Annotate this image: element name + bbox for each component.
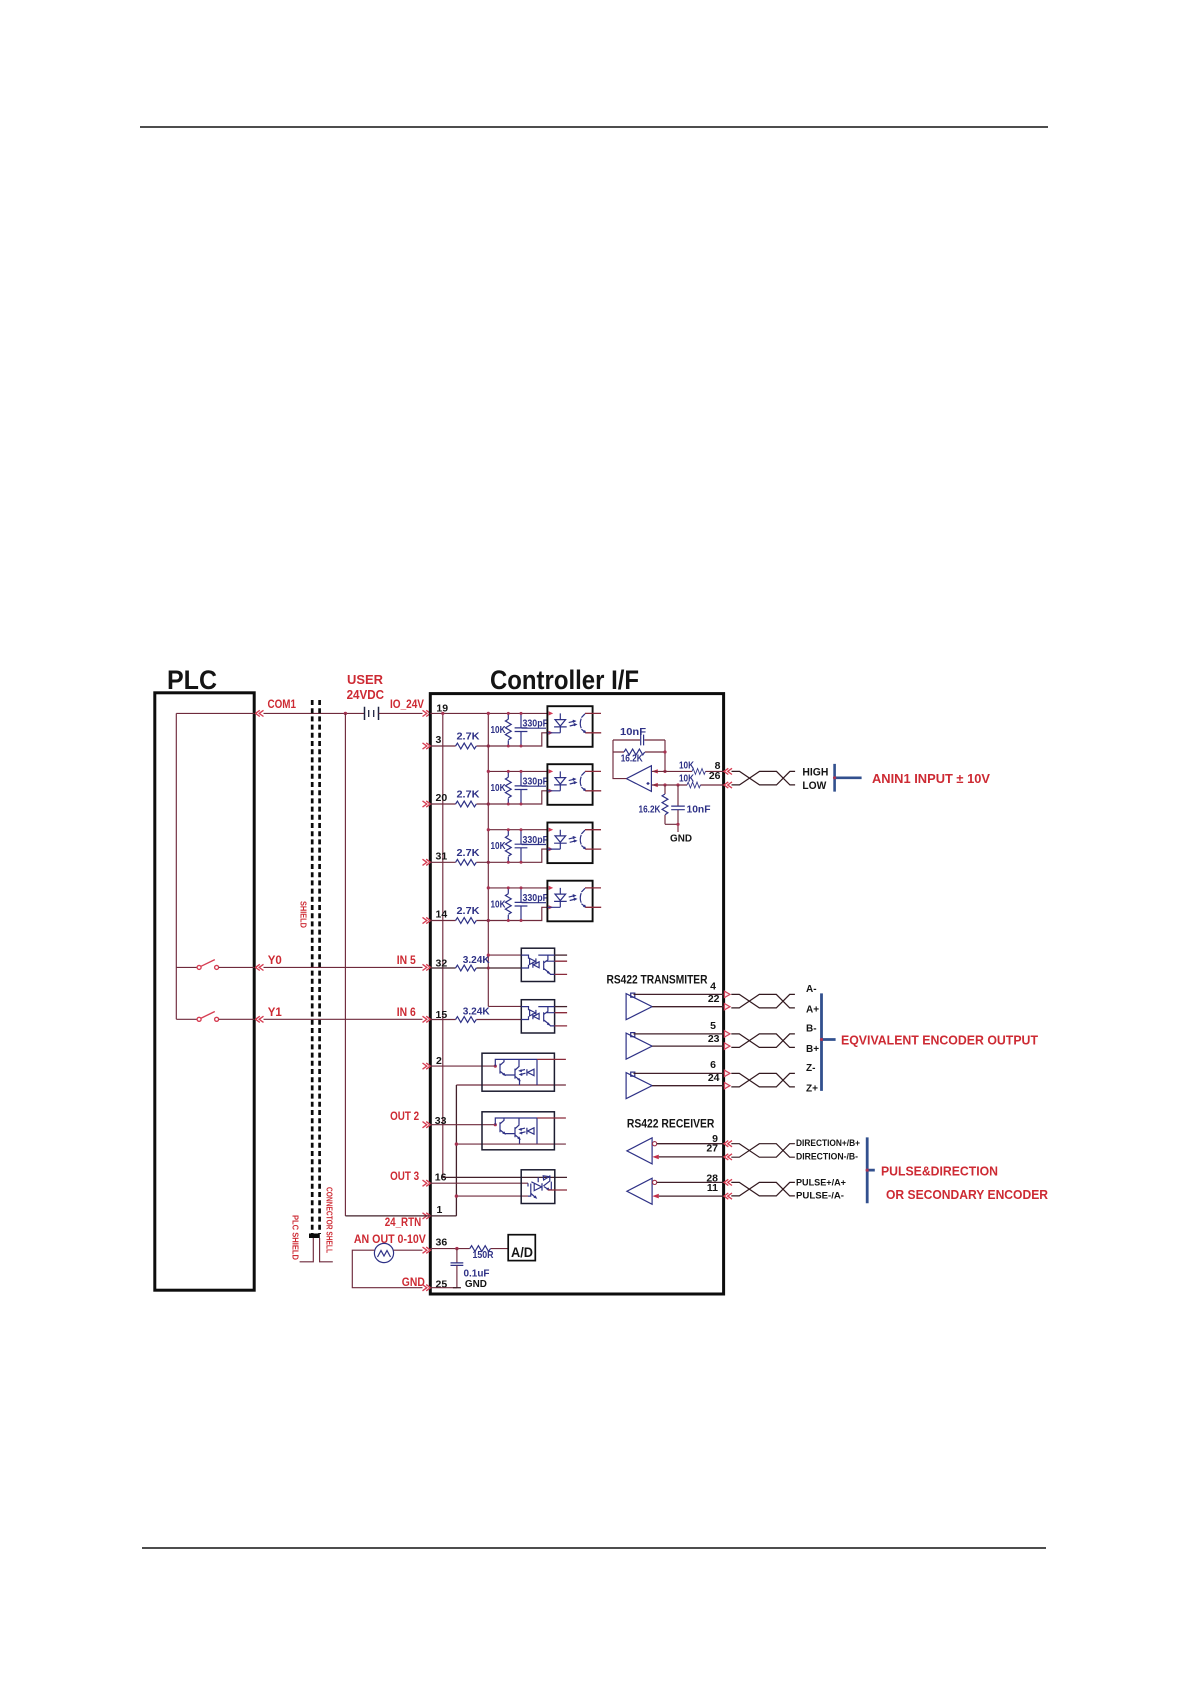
CONNECTOR SHELL label (325, 1187, 335, 1253)
pin 33 label (435, 1115, 447, 1127)
switch Y0 (176, 960, 254, 970)
Y0 arrow at PLC edge (256, 964, 264, 970)
shield dashed line left (311, 700, 314, 1234)
pin 8 arrow (724, 768, 732, 774)
resistor 10K pin 20 (491, 770, 512, 806)
pin 26 arrow (724, 782, 732, 788)
svg-text:PULSE+/A+: PULSE+/A+ (796, 1177, 846, 1187)
wire pin 14 (430, 907, 547, 920)
wire anode rail pin 14 (488, 887, 547, 889)
svg-text:10K: 10K (679, 772, 694, 784)
ANIN1 INPUT label (872, 772, 991, 786)
pin 14 label (436, 909, 448, 921)
bus IO_24V vertical (442, 713, 444, 1177)
svg-text:20: 20 (436, 792, 448, 804)
wire COM1 internal horizontal (176, 712, 254, 714)
analog source circle (374, 1243, 393, 1262)
svg-text:GND: GND (670, 833, 692, 845)
svg-text:36: 36 (436, 1237, 448, 1249)
node bus crossing pin 14 (487, 919, 490, 922)
pin 11 label (707, 1182, 718, 1194)
svg-text:25: 25 (436, 1279, 448, 1291)
optocoupler pin 33 (482, 1112, 566, 1150)
optocoupler pin 31 (547, 823, 601, 864)
PLC title (167, 665, 217, 695)
wire pin 23 (652, 1045, 724, 1047)
wire GND stub (665, 823, 680, 832)
wire pin 16 (430, 1182, 528, 1184)
wire pin 32 (430, 967, 521, 969)
pin 11 arrow (724, 1193, 732, 1199)
svg-text:GND: GND (465, 1278, 487, 1290)
pin 1 arrow (423, 1213, 431, 1219)
svg-text:2: 2 (436, 1055, 442, 1067)
IN6 arrow into controller (423, 1016, 431, 1022)
pin 36 arrow (423, 1247, 431, 1253)
svg-text:B-: B- (806, 1024, 817, 1035)
Y1 label (268, 1007, 283, 1019)
svg-text:3.24K: 3.24K (463, 1006, 490, 1018)
RS422 transmitter 6/24 (626, 1072, 652, 1099)
svg-text:B+: B+ (806, 1044, 819, 1055)
wire anode rail pin 20 (488, 770, 547, 772)
wire Y0 to IN5 (264, 966, 423, 968)
svg-text:16.2K: 16.2K (621, 754, 644, 765)
pin 22 output arrow (724, 1004, 730, 1010)
svg-text:31: 31 (436, 851, 448, 863)
resistor 16.2K to GND (639, 785, 668, 824)
svg-text:A/D: A/D (511, 1245, 533, 1260)
svg-text:RS422 TRANSMITER: RS422 TRANSMITER (607, 975, 709, 987)
page bottom rule (142, 1547, 1046, 1549)
COM1 label (268, 699, 297, 711)
wire pin 9 (657, 1143, 724, 1145)
node rail junction (487, 886, 490, 889)
pin 14 entry arrow (423, 917, 431, 923)
svg-text:24_RTN: 24_RTN (385, 1217, 422, 1229)
svg-text:3.24K: 3.24K (463, 954, 490, 966)
OUT 3 label (390, 1171, 419, 1183)
capacitor 330pF pin 20 (515, 770, 549, 806)
svg-text:PULSE&DIRECTION: PULSE&DIRECTION (881, 1164, 998, 1179)
svg-text:PLC SHIELD: PLC SHIELD (291, 1215, 301, 1260)
Z+ label (806, 1084, 818, 1095)
node bus crossing pin 3 (487, 744, 490, 747)
pin 31 entry arrow (423, 859, 431, 865)
OR SECONDARY ENCODER label (886, 1187, 1049, 1202)
svg-text:10K: 10K (491, 898, 506, 910)
receiver input circle (653, 1142, 657, 1146)
pin 6 output arrow (724, 1070, 730, 1076)
twisted pair receiver 9/27 (731, 1144, 795, 1158)
PULSE&DIRECTION label (881, 1164, 998, 1179)
wire pin 24 (652, 1085, 724, 1087)
pin 23 output arrow (724, 1043, 730, 1049)
A+ label (806, 1005, 819, 1016)
svg-text:OUT 2: OUT 2 (390, 1111, 419, 1123)
capacitor 10nF feedback (613, 726, 665, 745)
receiver input circle (653, 1180, 657, 1184)
node junction 24V return (344, 712, 347, 715)
pin 9 arrow (724, 1141, 732, 1147)
pin 20 label (436, 792, 448, 804)
node bus crossing pin 20 (487, 802, 490, 805)
svg-text:11: 11 (707, 1182, 718, 1194)
bus anode vertical (487, 713, 489, 1006)
B+ label (806, 1044, 819, 1055)
RS422 RECEIVER label (627, 1119, 715, 1131)
wire pin 28 (657, 1181, 724, 1183)
resistor 2.7K pin 31 (456, 847, 480, 865)
wire emitter return opto 33 (455, 1142, 566, 1145)
optocoupler pin 14 (547, 881, 601, 922)
pin 24 output arrow (724, 1083, 730, 1089)
capacitor 330pF pin 3 (515, 712, 549, 748)
pin 28 arrow (724, 1179, 732, 1185)
node non-inverting junctions (663, 783, 679, 786)
wire op-amp inverting input pin 8 (652, 770, 724, 772)
pin 25 label (436, 1279, 448, 1291)
24_RTN label (385, 1217, 422, 1229)
svg-text:6: 6 (710, 1059, 716, 1071)
pin 27 label (706, 1143, 718, 1155)
receiver input arrowhead (652, 1194, 659, 1199)
twisted pair B-/B+ (731, 1034, 795, 1048)
IO_24V label (390, 699, 424, 711)
PLC shield wire (300, 1238, 314, 1262)
wire pin 22 (652, 1006, 724, 1008)
svg-text:24: 24 (708, 1072, 720, 1084)
svg-text:SHIELD: SHIELD (299, 901, 309, 928)
IO_24V arrow into controller (423, 710, 431, 716)
IN5 arrow into controller (423, 964, 431, 970)
wire anode bus corner to IN6 opto (488, 1005, 521, 1007)
battery USER 24VDC (365, 707, 379, 720)
svg-text:GND: GND (402, 1277, 425, 1289)
RS422 transmitter 4/22 (626, 993, 652, 1020)
wire pin 27 (659, 1156, 724, 1158)
wire pin 11 (659, 1195, 724, 1197)
svg-text:26: 26 (709, 770, 721, 782)
svg-text:IN 5: IN 5 (397, 955, 417, 967)
wire AN OUT loop (352, 1250, 422, 1288)
svg-text:10K: 10K (679, 759, 694, 771)
B- label (806, 1024, 817, 1035)
svg-text:4: 4 (710, 980, 716, 992)
node bus anode junction (487, 712, 490, 715)
pin 16 label (435, 1172, 447, 1184)
pin 5 output arrow (724, 1031, 730, 1037)
op-amp input arrows (652, 769, 658, 787)
IN 6 label (397, 1007, 416, 1019)
svg-text:14: 14 (436, 909, 448, 921)
IN 5 label (397, 955, 417, 967)
bracket ANIN1 (833, 764, 862, 792)
connector shell wire (320, 1238, 333, 1262)
pin 22 label (708, 993, 720, 1005)
pin 6 label (710, 1059, 716, 1071)
pin 20 entry arrow (423, 801, 431, 807)
twisted pair A-/A+ (731, 994, 795, 1008)
wire bus to OUT3 opto top (443, 1176, 567, 1178)
svg-text:10K: 10K (491, 840, 506, 852)
capacitor 0.1uF (451, 1249, 491, 1288)
svg-text:Z+: Z+ (806, 1084, 818, 1095)
Controller I/F title (490, 665, 639, 695)
node rail junction (487, 770, 490, 773)
DIRECTION-/B- label (796, 1152, 858, 1162)
RS422 transmitter 5/23 (626, 1033, 652, 1060)
svg-text:16.2K: 16.2K (639, 804, 661, 816)
pin 31 label (436, 851, 448, 863)
wire pin 19 rail IO_24V (430, 712, 547, 714)
shield termination bar (309, 1234, 320, 1239)
optocoupler IN5 (521, 948, 567, 981)
capacitor 330pF pin 14 (515, 886, 549, 922)
svg-text:Y0: Y0 (268, 955, 282, 967)
resistor 3.24K pin 32 (456, 954, 490, 971)
svg-text:10K: 10K (491, 782, 506, 794)
wire feedback right vertical (663, 740, 666, 773)
LOW label (802, 780, 827, 792)
AN OUT label (354, 1234, 426, 1246)
resistor 150R (470, 1246, 494, 1261)
svg-text:Y1: Y1 (268, 1007, 283, 1019)
GND label red (402, 1277, 425, 1289)
svg-text:150R: 150R (473, 1250, 495, 1261)
svg-text:IN 6: IN 6 (397, 1007, 416, 1019)
svg-text:10nF: 10nF (620, 726, 647, 738)
PLC SHIELD label (291, 1215, 301, 1260)
OUT2 arrow into controller (423, 1122, 431, 1128)
pin 24 label (708, 1072, 720, 1084)
svg-text:LOW: LOW (802, 780, 827, 792)
optocoupler pin 3 (547, 706, 601, 747)
svg-text:Controller I/F: Controller I/F (490, 665, 639, 695)
pin 3 label (436, 734, 442, 746)
pin 9 label (712, 1133, 718, 1145)
svg-text:HIGH: HIGH (802, 767, 828, 779)
resistor 2.7K pin 3 (456, 731, 480, 749)
wire COM1 internal vertical (175, 713, 177, 1019)
svg-text:A-: A- (806, 984, 817, 995)
wire anode bus corner to IN5 opto (487, 954, 522, 970)
PULSE+/A+ label (796, 1177, 846, 1187)
wire pin 20 (430, 791, 547, 804)
wire anode rail pin 31 (488, 829, 547, 831)
wire COM1 to battery (264, 712, 365, 714)
page top rule (140, 126, 1048, 128)
svg-text:COM1: COM1 (268, 699, 297, 711)
bracket encoder output (820, 993, 836, 1091)
svg-text:27: 27 (706, 1143, 718, 1155)
shield dashed line right (318, 700, 321, 1234)
wire pin 6 (634, 1072, 724, 1074)
A/D box (508, 1235, 535, 1261)
svg-text:DIRECTION+/B+: DIRECTION+/B+ (796, 1138, 860, 1148)
resistor 16.2K feedback (613, 749, 665, 764)
pin 5 label (710, 1020, 716, 1032)
wire pin 15 (430, 1019, 521, 1021)
resistor 10K pin 26 (679, 772, 700, 788)
Y1 arrow at PLC edge (256, 1016, 264, 1022)
OUT3 arrow into controller (423, 1180, 431, 1186)
Z- label (806, 1063, 815, 1074)
optocoupler pin 20 (547, 764, 601, 805)
bracket pulse direction (866, 1137, 875, 1203)
wire pin 1 24_RTN (345, 1215, 456, 1217)
wire 24V return vertical (344, 713, 346, 1216)
resistor 10K pin 14 (491, 886, 512, 922)
node bus crossing pin 31 (487, 861, 490, 864)
pin 28 label (706, 1173, 718, 1185)
svg-text:10K: 10K (491, 724, 506, 736)
svg-text:OUT 3: OUT 3 (390, 1171, 419, 1183)
PULSE-/A- label (796, 1191, 844, 1201)
svg-text:24VDC: 24VDC (347, 687, 385, 702)
wire battery to IO_24V pin (379, 712, 423, 714)
pin 36 label (436, 1237, 448, 1249)
svg-text:23: 23 (708, 1033, 720, 1045)
svg-text:RS422 RECEIVER: RS422 RECEIVER (627, 1119, 715, 1131)
wire pin 5 (634, 1033, 724, 1035)
GND label op-amp (670, 833, 692, 845)
switch Y1 (176, 1012, 254, 1022)
EQVIVALENT ENCODER OUTPUT label (841, 1033, 1038, 1048)
pin 4 output arrow (724, 991, 730, 997)
DIRECTION+/B+ label (796, 1138, 860, 1148)
capacitor 330pF pin 31 (515, 828, 549, 864)
pin 25 arrow (423, 1285, 431, 1291)
wire pin 2 (430, 1065, 497, 1068)
wire pin 36 to A/D (430, 1247, 508, 1250)
svg-text:3: 3 (436, 734, 442, 746)
COM1 arrow at PLC edge (256, 710, 264, 716)
pin 4 label (710, 980, 716, 992)
svg-text:10nF: 10nF (687, 804, 712, 816)
svg-text:A+: A+ (806, 1005, 819, 1016)
wire pin 31 (430, 849, 547, 862)
svg-text:22: 22 (708, 993, 720, 1005)
svg-text:2.7K: 2.7K (457, 847, 480, 859)
pin 2 label (436, 1055, 442, 1067)
svg-text:2.7K: 2.7K (457, 789, 480, 801)
pin 19 label (436, 703, 448, 715)
twisted pair Z-/Z+ (731, 1073, 795, 1087)
wire emitter return opto 16 (455, 1194, 528, 1197)
optocoupler IN6 (521, 1000, 567, 1033)
resistor 10K pin 31 (491, 828, 512, 864)
svg-text:CONNECTOR SHELL: CONNECTOR SHELL (325, 1187, 335, 1253)
resistor 3.24K pin 15 (456, 1006, 490, 1023)
RS422 receiver 9/27 (627, 1138, 652, 1164)
svg-text:IO_24V: IO_24V (390, 699, 424, 711)
resistor 2.7K pin 20 (456, 789, 480, 807)
svg-text:AN OUT 0-10V: AN OUT 0-10V (354, 1234, 426, 1246)
svg-text:OR SECONDARY ENCODER: OR SECONDARY ENCODER (886, 1187, 1049, 1202)
resistor 10K pin 3 (491, 712, 512, 748)
optocoupler pin 16 (521, 1170, 567, 1204)
wire Y1 to IN6 (264, 1018, 423, 1020)
wire pin 4 (634, 993, 724, 995)
pin 23 label (708, 1033, 720, 1045)
GND label black (465, 1278, 487, 1290)
svg-text:1: 1 (437, 1204, 443, 1216)
wire op-amp non-inverting input pin 26 (652, 784, 724, 786)
Y0 label (268, 955, 282, 967)
wire pin 25 GND (430, 1287, 461, 1289)
pin 15 label (436, 1009, 448, 1021)
pin 3 entry arrow (423, 743, 431, 749)
svg-text:5: 5 (710, 1020, 716, 1032)
HIGH label (802, 767, 828, 779)
node bus junction (441, 712, 444, 715)
receiver input arrowhead (652, 1155, 659, 1160)
twisted pair ANIN1 (732, 771, 796, 785)
pin 26 label (709, 770, 721, 782)
wire emitter return opto 2 (456, 1084, 566, 1086)
pin 32 label (436, 957, 448, 969)
svg-text:DIRECTION-/B-: DIRECTION-/B- (796, 1152, 858, 1162)
pin 27 arrow (724, 1154, 732, 1160)
twisted pair receiver 28/11 (731, 1182, 795, 1196)
optocoupler pin 2 (482, 1053, 566, 1091)
pin 1 label (437, 1204, 443, 1216)
SHIELD label (299, 901, 309, 928)
svg-text:PULSE-/A-: PULSE-/A- (796, 1191, 844, 1201)
svg-text:EQVIVALENT ENCODER OUTPUT: EQVIVALENT ENCODER OUTPUT (841, 1033, 1038, 1048)
pin 2 arrow (423, 1063, 431, 1069)
RS422 TRANSMITER label (607, 975, 709, 987)
svg-text:USER: USER (347, 672, 384, 687)
USER 24VDC label (347, 672, 385, 702)
svg-text:2.7K: 2.7K (457, 905, 480, 917)
wire pin 33 (430, 1123, 497, 1126)
svg-text:ANIN1 INPUT ± 10V: ANIN1 INPUT ± 10V (872, 772, 991, 786)
RS422 receiver 28/11 (627, 1178, 652, 1204)
svg-text:PLC: PLC (167, 665, 217, 695)
wire op-amp output (613, 740, 626, 779)
node rail junction (487, 828, 490, 831)
svg-text:Z-: Z- (806, 1063, 815, 1074)
capacitor 10nF to GND (671, 785, 711, 824)
svg-text:2.7K: 2.7K (457, 731, 480, 743)
OUT 2 label (390, 1111, 419, 1123)
resistor 10K pin 8 (679, 759, 705, 774)
bus emitter return vertical (455, 1085, 457, 1216)
resistor 2.7K pin 14 (456, 905, 480, 923)
A- label (806, 984, 817, 995)
pin 8 label (715, 760, 721, 772)
PLC box (155, 693, 254, 1290)
op-amp U1 (626, 766, 651, 792)
Controller I/F box (430, 694, 723, 1294)
wire pin 3 (430, 733, 547, 746)
